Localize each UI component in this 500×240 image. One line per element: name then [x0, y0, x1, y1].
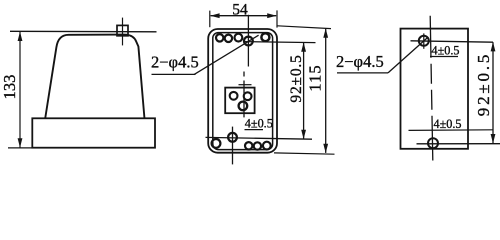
extension line right (54): [276, 10, 278, 27]
mounting hole bottom (phi 4.5): [228, 133, 237, 142]
bottom terminal circle 2: [254, 142, 261, 149]
base plate: [32, 118, 155, 147]
bottom terminal circle 1: [245, 142, 252, 149]
dim line 92+-0.5 (middle): [303, 43, 305, 139]
svg-text:4±0.5: 4±0.5: [434, 117, 462, 131]
arrowhead up (115): [323, 28, 328, 37]
arrowhead up (92 mid): [301, 42, 306, 51]
svg-text:2−φ4.5: 2−φ4.5: [151, 52, 199, 71]
centerline horizontal of bottom hole, extended to 92 dim: [206, 137, 313, 139]
dim line 92+-0.5 (right): [492, 42, 494, 143]
main vertical centerline segments: [243, 72, 245, 77]
bottom terminal circle 3: [263, 142, 271, 150]
block circle top-right: [244, 92, 252, 100]
arrowhead up (92 right): [491, 42, 496, 51]
arrowhead down (92 mid): [301, 130, 306, 139]
screw centerline vertical: [122, 18, 124, 46]
arrowhead right (54): [267, 13, 276, 18]
arrowhead left (54): [210, 13, 219, 18]
terminal circle 4 (right, thick): [261, 33, 269, 41]
terminal circle 1: [216, 34, 223, 41]
leader line to top hole: [194, 35, 259, 74]
shelf line under bottom 4+-0.5, to 92 dim: [409, 129, 494, 132]
long vertical centerline (dashed): [430, 16, 433, 161]
horizontal centerline of top hole extended to 92 dim: [411, 41, 494, 42]
mounting hole top (right view): [419, 36, 429, 46]
block circle top-left: [230, 92, 238, 100]
centerline vertical of bottom hole: [232, 127, 234, 165]
bottom-left terminal circle: [212, 139, 221, 148]
arrowhead down (133 bottom): [18, 138, 23, 147]
terminal circle 2: [225, 35, 232, 42]
svg-text:133: 133: [0, 75, 19, 100]
bottom extension for 115: [274, 153, 335, 154]
top extension line: [10, 30, 157, 33]
bracket rectangle: [401, 29, 469, 149]
relay inner case line: [213, 33, 273, 150]
arrowhead up (133 top): [18, 32, 23, 41]
underline of top 4+-0.5: [430, 56, 458, 58]
extension line left (54): [209, 11, 211, 28]
leader line to right top hole: [388, 38, 428, 73]
svg-text:92±0.5: 92±0.5: [288, 54, 305, 102]
svg-text:4±0.5: 4±0.5: [432, 43, 460, 57]
horizontal centerline of bottom hole extended to edge: [417, 143, 500, 145]
leader shelf (right): [337, 72, 388, 74]
centerline horizontal of top hole, extended to 92 dim: [243, 42, 316, 43]
block circle bottom (thick): [239, 102, 248, 111]
vertical cross of top hole: [423, 33, 425, 48]
svg-text:4±0.5: 4±0.5: [245, 116, 273, 130]
terminal block square: [225, 88, 254, 114]
dim line 115: [325, 29, 327, 153]
leader shelf (middle): [152, 73, 196, 75]
centerline vertical of top hole: [247, 15, 249, 67]
bottom extension line: [8, 147, 33, 149]
terminal circle 3: [235, 34, 243, 42]
mounting hole bottom (right view): [428, 138, 438, 148]
mounting hole top (phi 4.5): [244, 37, 253, 46]
arrowhead down (115): [323, 144, 328, 153]
centerline cross tick: [239, 84, 252, 86]
top extension for 115: [278, 26, 332, 29]
svg-text:92±0.5: 92±0.5: [474, 52, 493, 116]
arrowhead down (92 right): [491, 134, 496, 143]
svg-text:115: 115: [306, 64, 325, 91]
relay cover body outline: [45, 35, 144, 119]
svg-text:2−φ4.5: 2−φ4.5: [336, 52, 384, 71]
relay outer case rounded rect: [208, 29, 277, 153]
screw head square: [117, 25, 128, 35]
dimension line 133: [19, 32, 21, 148]
underline of 4+-0.5 (middle): [245, 129, 264, 131]
dim line 54: [211, 15, 277, 17]
